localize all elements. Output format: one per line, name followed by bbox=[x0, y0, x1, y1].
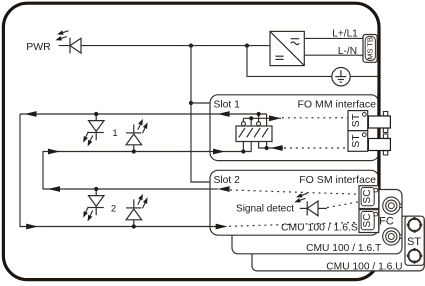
dashed link Slot2 RX (row C to SC1) bbox=[230, 190, 359, 194]
svg-text:FC: FC bbox=[379, 216, 394, 228]
connector SC1 (Slot2 optical) bbox=[359, 186, 379, 209]
svg-text:L-/N: L-/N bbox=[338, 46, 357, 57]
transformer T1 leads (bottom) bbox=[243, 142, 283, 152]
LED 1b (up, on row B) bbox=[126, 124, 142, 151]
chassis box CMU 100 / 1.6.U bbox=[252, 216, 424, 271]
connector ST upper (on 1.6.U) bbox=[407, 218, 422, 233]
Slot 2 module box (FO SM interface) bbox=[210, 170, 379, 235]
svg-text:FO MM interface: FO MM interface bbox=[297, 98, 376, 110]
connector ST lower (on 1.6.U) bbox=[407, 248, 422, 263]
node junction LED2a on row C bbox=[94, 187, 98, 191]
arrow TX to ST (pointing right) bbox=[269, 115, 281, 121]
svg-text:Slot 1: Slot 1 bbox=[214, 99, 241, 110]
ground symbol (protective earth) bbox=[332, 68, 350, 86]
svg-text:FO SM interface: FO SM interface bbox=[299, 174, 376, 186]
device right-side panel (thick border segment over slot boxes) bbox=[377, 94, 380, 189]
transformer T1 body bbox=[236, 126, 272, 142]
arrow row A left end (pointing left) bbox=[25, 111, 37, 117]
wire vertical power feed to slots bbox=[191, 46, 210, 182]
contact circle top-left winding bbox=[241, 122, 245, 126]
svg-text:Signal detect: Signal detect bbox=[236, 204, 294, 215]
dashed link Slot2 TX (row D to SC2) bbox=[229, 222, 359, 226]
svg-text:ST: ST bbox=[350, 134, 362, 148]
LED 1a emission arrows bbox=[83, 132, 93, 147]
svg-text:SC: SC bbox=[362, 190, 373, 204]
ST plug 2 through panel bbox=[368, 134, 390, 155]
LED 2b (up, on row D) bbox=[126, 199, 142, 226]
ST connector tab (on 1.6.U) bbox=[405, 216, 424, 265]
wire feed branch into Slot 1 bbox=[191, 102, 210, 104]
transformer T1 leads (top) bbox=[243, 114, 281, 126]
wire row B / row C loop (Slot2 to Slot1) bbox=[43, 152, 251, 190]
ST plug 1 through panel bbox=[368, 112, 390, 133]
dashed link RX to ST2 bbox=[284, 147, 348, 149]
contact circle top-right winding bbox=[257, 122, 261, 126]
node junction on PWR wire (to slots feed) bbox=[189, 44, 193, 48]
wire PWR to power supply bbox=[59, 45, 270, 47]
svg-text:SC: SC bbox=[362, 214, 373, 228]
LED PWR (diode pointing left) bbox=[70, 38, 81, 54]
wire ground branch bbox=[247, 46, 332, 77]
svg-text:CMU 100 / 1.6.S: CMU 100 / 1.6.S bbox=[281, 223, 358, 234]
node junction RX to winding bbox=[265, 146, 269, 150]
svg-text:ST: ST bbox=[350, 113, 362, 127]
LED 2b emission arrows bbox=[138, 194, 148, 208]
svg-text:2: 2 bbox=[111, 203, 116, 214]
connector FC lower (on 1.6.T) bbox=[383, 228, 402, 245]
wire L-/N bbox=[304, 54, 363, 56]
LED 1a (down, on row A) bbox=[88, 114, 104, 140]
node junction LED2b on row D bbox=[132, 224, 136, 228]
arrow row A at Slot1 (pointing left) bbox=[218, 111, 230, 117]
node junction row B to winding bbox=[241, 149, 245, 153]
LED 2a emission arrows bbox=[83, 207, 93, 222]
arrow row B at Slot1 (pointing right) bbox=[213, 149, 225, 155]
svg-text:CMU 100 / 1.6.T: CMU 100 / 1.6.T bbox=[306, 243, 382, 254]
svg-text:MS TB: MS TB bbox=[366, 37, 375, 60]
arrow row B left (pointing right) bbox=[48, 149, 60, 155]
node junction feed to Slot 1 bbox=[189, 101, 193, 105]
power supply U1 (AC/DC converter) bbox=[270, 31, 304, 65]
svg-text:Slot 2: Slot 2 bbox=[214, 175, 241, 186]
svg-text:CMU 100 / 1.6.U: CMU 100 / 1.6.U bbox=[326, 262, 402, 273]
dashed link TX to ST1 bbox=[282, 117, 348, 119]
LED PWR emission arrows bbox=[55, 27, 68, 44]
arrow RX from ST (pointing left) bbox=[271, 145, 283, 151]
LED 2a (down, on row C) bbox=[88, 189, 104, 215]
arrow row C left (pointing left) bbox=[48, 186, 60, 192]
chassis box CMU 100 / 1.6.T bbox=[232, 190, 402, 254]
svg-text:L+/L1: L+/L1 bbox=[332, 28, 358, 39]
node junction on PWR wire (to ground) bbox=[245, 44, 249, 48]
connector MS TB (power terminal block) bbox=[363, 35, 377, 63]
LED 1b emission arrows bbox=[138, 119, 148, 133]
arrow row D at Slot2 (pointing right) bbox=[216, 224, 228, 230]
svg-text:1: 1 bbox=[112, 128, 117, 139]
node junction LED1a on row A bbox=[94, 112, 98, 116]
svg-text:ST: ST bbox=[407, 236, 421, 248]
LED signal detect (diode pointing left) bbox=[300, 201, 327, 216]
svg-text:PWR: PWR bbox=[26, 41, 51, 53]
wire ground to panel bbox=[350, 75, 378, 77]
node junction row A to winding bbox=[257, 112, 261, 116]
connector FC upper (on 1.6.T) bbox=[383, 197, 402, 214]
connector SC2 (Slot2 optical) bbox=[359, 210, 379, 233]
arrow row C at Slot2 (pointing left) bbox=[218, 186, 230, 192]
node junction LED1b on row B bbox=[132, 149, 136, 153]
dashed link signal detect to SC1 bbox=[327, 202, 359, 208]
connector ST1 (Slot1 optical) bbox=[348, 111, 368, 131]
LED signal detect emission arrows bbox=[294, 190, 307, 206]
node junction row A2 to winding bbox=[249, 116, 253, 120]
Slot 1 module box (FO MM interface) bbox=[210, 95, 379, 161]
wire L+/L1 bbox=[304, 37, 363, 39]
wire row A (Slot1 TX out, y=114) bbox=[20, 114, 216, 227]
arrow row D left end (pointing right) bbox=[26, 224, 38, 230]
connector ST2 (Slot1 optical) bbox=[348, 131, 368, 152]
